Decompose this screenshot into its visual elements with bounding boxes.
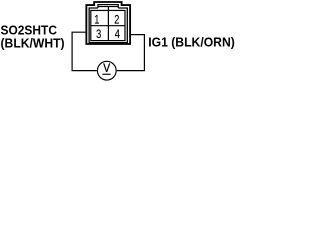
svg-text:(BLK/WHT): (BLK/WHT) [1,36,65,50]
svg-text:4: 4 [115,28,120,41]
svg-text:IG1 (BLK/ORN): IG1 (BLK/ORN) [148,35,235,49]
svg-text:V: V [103,63,111,76]
svg-text:2: 2 [114,14,119,27]
svg-text:1: 1 [94,14,99,27]
svg-text:3: 3 [96,28,101,41]
